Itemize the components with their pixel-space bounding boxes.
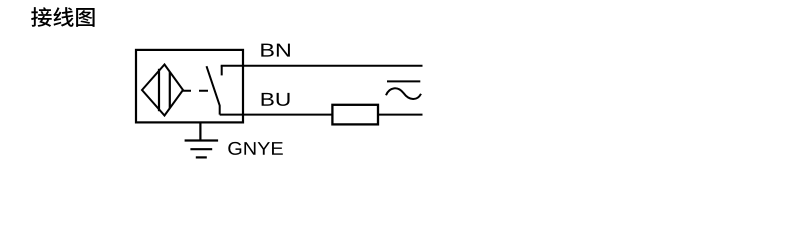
- proximity sensor symbol: diamond: [142, 65, 183, 116]
- AC supply symbol: overline: [387, 80, 420, 82]
- sensor outline box: [136, 50, 243, 123]
- diamond chord line right: [169, 72, 171, 108]
- diamond chord line left: [158, 69, 160, 111]
- wire BU: [220, 114, 423, 116]
- switch fixed contact stub: [221, 66, 223, 76]
- title 接线图: [31, 7, 94, 27]
- switch contact arm: [207, 66, 220, 114]
- ground stem: [199, 122, 201, 141]
- load resistor: [332, 105, 378, 125]
- ground bar 3: [196, 156, 207, 158]
- label BU: [262, 93, 290, 106]
- wire BN: [221, 65, 423, 67]
- ground bar 1: [185, 139, 219, 141]
- ground bar 2: [190, 148, 212, 150]
- AC supply symbol: sine wave: [386, 88, 421, 99]
- dashed actuation link: [183, 90, 208, 92]
- label BN: [261, 44, 290, 57]
- label GNYE: [228, 142, 282, 155]
